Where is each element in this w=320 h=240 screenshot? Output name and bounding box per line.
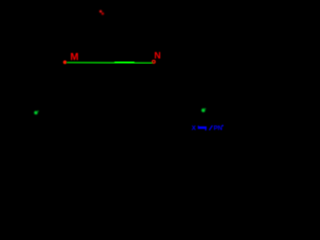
point M marker — [63, 60, 67, 64]
blue caption: X — [192, 125, 197, 132]
blue caption: PN' — [214, 125, 223, 132]
wire segment MN thin — [67, 61, 153, 64]
blue caption: slash — [209, 125, 212, 130]
red marker blob top — [99, 10, 104, 15]
wire segment thick middle — [115, 61, 135, 64]
green tick bottom right — [202, 109, 206, 113]
svg-text:N: N — [154, 51, 161, 61]
blue caption: middle word — [198, 126, 206, 131]
svg-text:PN: PN — [214, 125, 223, 132]
green tick bottom left — [34, 111, 38, 115]
point N marker — [152, 60, 155, 63]
